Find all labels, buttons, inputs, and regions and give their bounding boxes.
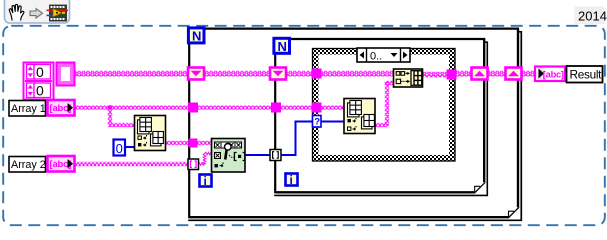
tunnel inner loop Array 1 (271, 103, 281, 113)
wire 2D: case right tunnel to inner right SR (455, 71, 474, 77)
tunnel case left 2D (312, 69, 322, 79)
Index Array function (outside loops) (135, 116, 166, 151)
auto-index tunnel [] inner loop (index) (270, 150, 281, 161)
wire 2D: outer SR to inner SR (204, 71, 271, 77)
loop iteration terminal i inner (286, 174, 298, 186)
svg-text:Array 1: Array 1 (11, 103, 46, 115)
VI filmstrip icon (47, 5, 69, 21)
auto-index tunnel [] outer loop Array 2 (188, 159, 199, 170)
Search 1D Array function (212, 139, 246, 173)
svg-text:0: 0 (36, 83, 44, 99)
Array 1 terminal [abc] (48, 100, 75, 116)
wire 1D: inner tunnel to case tunnel (281, 105, 312, 109)
wire 2D: Build Array out to case right tunnel (422, 72, 449, 78)
shift register outer right (506, 68, 522, 80)
wire junction on Array 1 wire (108, 105, 113, 110)
wire i32: Search output to inner [] tunnel (245, 154, 270, 156)
Array 1 label (9, 101, 46, 117)
shift register inner right (472, 68, 488, 80)
svg-text:0: 0 (36, 64, 44, 80)
shift register outer left (188, 68, 204, 80)
2D string array constant: element (57, 63, 75, 86)
loop iteration terminal i outer (200, 175, 212, 187)
2014 version label (575, 7, 605, 25)
wire string scalar: [] tunnel to Search 1D Array (198, 152, 212, 165)
tunnel case left 1D (312, 103, 322, 113)
loop count terminal N inner (274, 38, 290, 53)
for-loop outer corner fold (508, 207, 519, 218)
wire 1D: Index Array 1 out to outer loop tunnel (165, 141, 189, 145)
for-loop outer frame (188, 28, 521, 221)
wire 1D: Index Array 2 out going up to Build Array (375, 123, 387, 127)
svg-text:0: 0 (116, 141, 123, 156)
shift register inner left (270, 68, 286, 80)
Index Array function (inside case) (344, 99, 375, 134)
svg-text:[abc]: [abc] (543, 69, 564, 79)
wire 1D: Array 2 to outer [] tunnel (75, 162, 188, 166)
svg-text:N: N (278, 39, 287, 54)
svg-text:?: ? (314, 117, 320, 128)
wire 2D: case tunnel to Build Array (319, 71, 394, 77)
wire 1D-string-array: Array 1 to outer tunnel (74, 105, 189, 109)
svg-text:i: i (290, 173, 293, 187)
wire 1D: case tunnel to Index Array 2 (319, 105, 344, 109)
run arrow icon (30, 9, 43, 18)
wire 2D: inner SR to case tunnel (286, 71, 312, 77)
Array 2 terminal [abc] (48, 156, 75, 172)
toolbar window (5, 0, 70, 23)
wire 1D: tunnel to Search 1D Array (197, 141, 212, 145)
svg-text:N: N (192, 29, 201, 44)
wire i32: 0 constant to Index Array 1 (125, 146, 135, 148)
2D string array constant: index frame (24, 63, 54, 100)
for-loop inner corner fold (474, 182, 485, 193)
tunnel case right 2D (447, 70, 457, 80)
svg-text:Result: Result (570, 68, 603, 82)
wire 1D: branch down to Index Array 1 (108, 108, 112, 124)
Result terminal [abc] (535, 67, 565, 82)
loop count terminal N outer (188, 28, 204, 43)
wire 2D: inner SR to outer SR right (486, 71, 507, 77)
case selector terminal ? (313, 116, 322, 128)
tunnel outer loop Index Array feed (189, 139, 198, 148)
wire i32: [] tunnel to riser (281, 122, 344, 156)
Array 2 label (9, 157, 46, 173)
tunnel outer loop Array 1 (188, 103, 198, 113)
wire 2D: outer SR to Result terminal (520, 71, 535, 77)
case structure frame (313, 49, 456, 162)
Result label (567, 66, 603, 83)
0 numeric constant (114, 140, 126, 156)
case selector label "0.." (357, 48, 410, 62)
wire 2D-string-array: array constant to outer shift reg (74, 71, 189, 77)
wire 1D: outer tunnel to inner tunnel (197, 105, 272, 109)
svg-text:Array 2: Array 2 (11, 159, 46, 171)
hand tool icon (9, 4, 24, 20)
svg-text:i: i (204, 174, 207, 188)
svg-text:2014: 2014 (578, 9, 607, 24)
Build Array function (394, 69, 423, 87)
for-loop inner frame (274, 38, 487, 195)
svg-text:0..: 0.. (370, 51, 382, 63)
